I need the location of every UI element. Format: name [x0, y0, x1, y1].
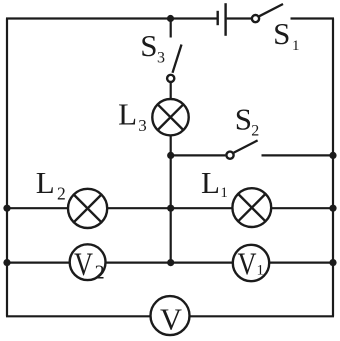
svg-text:L: L: [118, 97, 137, 132]
wire battery to switch S1: [227, 17, 251, 19]
voltmeter V2 circle: [70, 244, 106, 280]
junction node A (below L3): [167, 152, 174, 159]
svg-text:1: 1: [257, 263, 265, 279]
voltmeter V circle: [151, 296, 190, 335]
wire V1 to right edge: [269, 262, 333, 264]
svg-text:1: 1: [292, 38, 300, 54]
lamp L3: [152, 99, 188, 135]
wire node A to switch S2: [171, 154, 226, 156]
svg-text:L: L: [36, 165, 55, 200]
wire node A down to lamp row: [170, 155, 172, 208]
wire middle node to voltmeter V1: [171, 262, 233, 264]
junction node right, S2 row: [329, 152, 336, 159]
svg-text:2: 2: [57, 184, 66, 204]
svg-text:3: 3: [157, 50, 165, 67]
junction node middle, lamp row: [167, 205, 174, 212]
svg-text:2: 2: [251, 122, 259, 139]
junction node top (battery branch): [167, 15, 174, 22]
wire middle node to lamp L1: [171, 207, 233, 209]
wire S3 to lamp L3: [170, 83, 172, 100]
svg-text:V: V: [238, 245, 257, 281]
junction node middle, meter row: [167, 259, 174, 266]
svg-text:V: V: [74, 247, 93, 283]
switch S1: [252, 4, 283, 22]
svg-text:S: S: [140, 28, 157, 63]
wire left edge to lamp L2: [7, 207, 68, 209]
svg-text:1: 1: [220, 185, 228, 201]
wire left edge: [6, 19, 8, 317]
battery B1: [218, 3, 226, 36]
svg-text:S: S: [273, 16, 290, 51]
wire V2 to middle node: [106, 262, 171, 264]
junction node left, lamp row: [3, 205, 10, 212]
wire L1 to right edge: [271, 207, 333, 209]
wire bottom edge left segment: [6, 315, 150, 317]
wire L2 to middle node: [107, 207, 171, 209]
svg-text:2: 2: [95, 261, 105, 283]
wire bottom edge right segment: [190, 315, 335, 317]
wire left edge to voltmeter V2: [7, 262, 70, 264]
lamp L1: [232, 188, 271, 227]
junction node right, lamp row: [329, 205, 336, 212]
svg-text:S: S: [235, 101, 252, 136]
svg-text:3: 3: [138, 116, 147, 135]
wire middle node down to meter row: [170, 208, 172, 263]
wire top node down to S3: [170, 19, 172, 38]
junction node left, meter row: [3, 259, 10, 266]
voltmeter V1 circle: [233, 245, 269, 281]
switch S3: [167, 45, 181, 83]
wire L3 to node A: [170, 136, 172, 157]
junction node right, meter row: [329, 259, 336, 266]
lamp L2: [68, 189, 107, 228]
svg-text:L: L: [201, 165, 220, 200]
wire right edge: [332, 19, 334, 317]
svg-text:V: V: [160, 301, 183, 336]
wire S2 to right edge: [262, 154, 334, 156]
wire S1 to top-right corner: [291, 17, 335, 19]
switch S2: [226, 140, 257, 158]
wire top edge left segment: [6, 17, 217, 19]
